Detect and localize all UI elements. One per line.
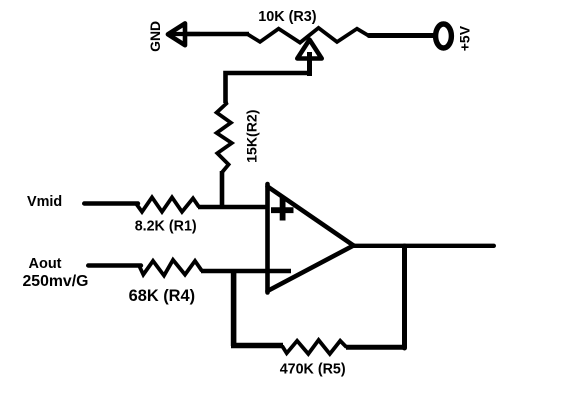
svg-text:+5V: +5V (456, 25, 472, 51)
svg-text:68K (R4): 68K (R4) (129, 287, 196, 305)
svg-text:250mv/G: 250mv/G (23, 273, 89, 290)
svg-text:8.2K (R1): 8.2K (R1) (135, 219, 197, 235)
svg-text:15K(R2): 15K(R2) (244, 110, 260, 163)
svg-text:10K (R3): 10K (R3) (258, 9, 317, 25)
svg-text:470K (R5): 470K (R5) (280, 362, 346, 378)
svg-text:Vmid: Vmid (27, 194, 62, 210)
svg-text:Aout: Aout (29, 256, 62, 272)
svg-text:GND: GND (147, 21, 163, 52)
